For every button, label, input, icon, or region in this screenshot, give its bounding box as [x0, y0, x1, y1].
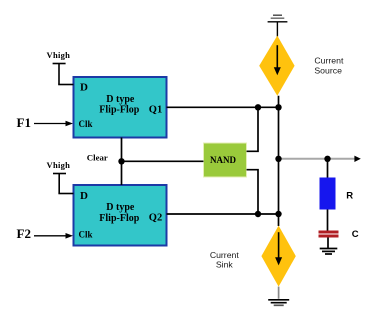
wire main rail: current source to current sink: [278, 96, 280, 226]
svg-text:Q2: Q2: [149, 212, 162, 223]
junction dot output/RC branch: [324, 156, 330, 162]
flip-flop U2 (D type Flip-Flop, bottom): [74, 185, 167, 246]
wire NAND upper input: vertical from Q1 net down to U3: [247, 107, 259, 151]
wire Q1 net: U1 Q1 output to current-source rail: [167, 106, 279, 108]
wire resistor R to capacitor C: [327, 210, 329, 232]
Vhigh supply symbol for U1 D input: [53, 64, 66, 85]
svg-text:Clk: Clk: [79, 119, 93, 129]
svg-text:R: R: [346, 190, 353, 201]
wire output net (gray) with arrow: [279, 156, 361, 162]
junction dot rail at Q2: [275, 211, 281, 217]
svg-text:F2: F2: [17, 226, 31, 241]
resistor R (blue block): [320, 178, 336, 210]
wire Clear net: NAND output to U1/U2 clear pins: [122, 138, 204, 186]
wire current sink to ground (gray stem): [278, 287, 280, 299]
current sink I2 (diamond): [261, 226, 295, 287]
label Current Source: [314, 56, 344, 76]
svg-text:Vhigh: Vhigh: [47, 160, 71, 170]
capacitor C (red plates): [319, 232, 339, 236]
wire F2 arrow to U2 Clk: [34, 233, 73, 239]
NAND gate U3: [204, 143, 247, 177]
wire Q2 net: U2 Q2 output to current-sink rail: [167, 213, 279, 215]
svg-text:Q1: Q1: [149, 104, 162, 115]
ground (inverted) above current source: [268, 15, 288, 36]
svg-text:Clk: Clk: [79, 229, 93, 239]
svg-text:NAND: NAND: [210, 155, 236, 165]
svg-text:Sink: Sink: [216, 260, 234, 270]
junction dot rail at Q1: [275, 104, 281, 110]
svg-text:Flip-Flop: Flip-Flop: [99, 105, 139, 116]
ground below capacitor: [320, 249, 338, 255]
junction dot Clear node: [118, 158, 124, 164]
svg-text:Source: Source: [314, 66, 342, 76]
ground below current sink: [268, 300, 289, 306]
current source I1 (diamond): [259, 36, 294, 96]
svg-text:D: D: [80, 82, 88, 94]
svg-text:D: D: [80, 190, 88, 202]
flip-flop U1 (D type Flip-Flop, top): [74, 77, 167, 138]
svg-text:C: C: [352, 229, 359, 240]
junction dot rail/output: [275, 156, 281, 162]
wire Vhigh to U1 D pin: [58, 84, 73, 86]
svg-text:D type: D type: [106, 202, 135, 213]
svg-text:Flip-Flop: Flip-Flop: [99, 213, 139, 224]
wire F1 arrow to U1 Clk: [34, 121, 73, 127]
wire Vhigh to U2 D pin: [58, 193, 73, 195]
svg-text:Clear: Clear: [87, 153, 108, 163]
Vhigh supply symbol for U2 D input: [53, 174, 66, 194]
svg-text:Current: Current: [210, 250, 240, 260]
wire output branch down to resistor R: [327, 159, 329, 178]
svg-text:Vhigh: Vhigh: [47, 50, 71, 60]
junction dot Q2/rail: [255, 211, 261, 217]
svg-text:F1: F1: [17, 115, 31, 130]
label Current Sink: [210, 250, 240, 270]
svg-text:D type: D type: [106, 94, 135, 105]
wire capacitor C to ground: [327, 238, 329, 249]
junction dot Q1/rail: [255, 104, 261, 110]
svg-text:Current: Current: [314, 56, 344, 66]
wire NAND lower input: vertical from Q2 net up to U3: [247, 170, 259, 214]
